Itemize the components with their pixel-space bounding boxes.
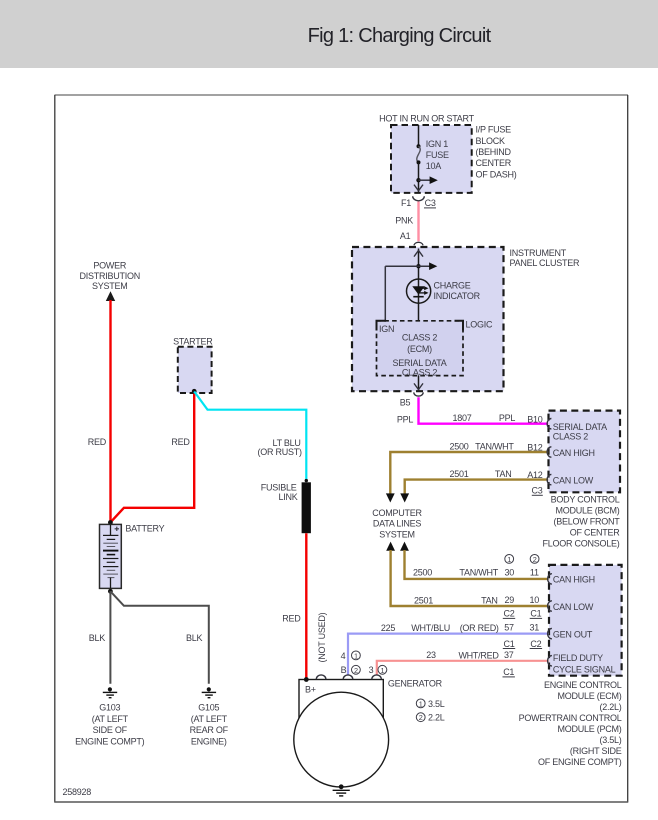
svg-text:CAN HIGH: CAN HIGH xyxy=(553,448,595,458)
wire WHT/RED 23 ECM FIELD to generator xyxy=(377,661,549,675)
svg-text:CLASS 2: CLASS 2 xyxy=(402,332,438,342)
svg-text:B5: B5 xyxy=(400,398,411,408)
svg-text:1807: 1807 xyxy=(452,413,471,423)
svg-text:(RIGHT SIDE: (RIGHT SIDE xyxy=(570,746,622,756)
logic box (inner dashed) xyxy=(377,321,464,376)
fusible link xyxy=(305,479,308,482)
connector at CAN HIGH xyxy=(548,574,552,584)
svg-text:G103: G103 xyxy=(99,703,120,713)
svg-text:BLK: BLK xyxy=(89,633,106,643)
svg-text:G105: G105 xyxy=(198,703,219,713)
svg-text:CHARGE: CHARGE xyxy=(434,281,471,291)
arrow down (2501 to data lines) xyxy=(400,493,409,502)
body control module box xyxy=(549,411,621,493)
wire TAN 2501 to BCM A12 xyxy=(405,480,549,494)
connector at B10 xyxy=(547,419,551,429)
svg-text:RED: RED xyxy=(282,614,301,624)
circled 1 column header xyxy=(505,555,514,564)
svg-text:TAN/WHT: TAN/WHT xyxy=(475,441,514,451)
svg-text:(NOT USED): (NOT USED) xyxy=(317,612,327,662)
svg-text:11: 11 xyxy=(530,568,539,578)
svg-text:RED: RED xyxy=(171,437,190,447)
connector at A12 xyxy=(547,474,551,484)
svg-text:30: 30 xyxy=(505,568,515,578)
ground G105 xyxy=(190,687,229,746)
svg-text:MODULE (BCM): MODULE (BCM) xyxy=(556,506,620,516)
svg-text:TAN/WHT: TAN/WHT xyxy=(459,567,498,577)
logic box corner brackets xyxy=(377,321,387,331)
svg-text:BLK: BLK xyxy=(186,633,203,643)
DATALINES xyxy=(372,508,422,551)
svg-text:HOT IN RUN OR START: HOT IN RUN OR START xyxy=(379,114,475,124)
generator body rectangle xyxy=(299,680,383,746)
generator circle xyxy=(294,692,389,787)
wire RED starter to battery xyxy=(111,392,195,523)
svg-text:225: 225 xyxy=(381,623,396,633)
ECM xyxy=(348,550,622,767)
instrument panel cluster box xyxy=(352,247,504,391)
svg-text:SERIAL DATA: SERIAL DATA xyxy=(392,358,446,368)
svg-text:3: 3 xyxy=(369,665,374,675)
svg-text:ENGINE CONTROL: ENGINE CONTROL xyxy=(544,680,622,690)
svg-text:PNK: PNK xyxy=(395,216,413,226)
svg-text:WHT/RED: WHT/RED xyxy=(458,651,499,661)
arrow up (CAN HIGH from ECM) xyxy=(400,542,409,551)
svg-text:BLOCK: BLOCK xyxy=(476,136,506,146)
svg-text:INDICATOR: INDICATOR xyxy=(434,291,481,301)
svg-text:F1: F1 xyxy=(401,198,411,208)
svg-text:CAN LOW: CAN LOW xyxy=(553,602,594,612)
svg-text:B10: B10 xyxy=(527,414,543,424)
connector at FIELD xyxy=(548,656,552,666)
connector at B5 xyxy=(414,392,423,396)
svg-text:RED: RED xyxy=(88,437,107,447)
svg-text:ENGINE COMPT): ENGINE COMPT) xyxy=(75,736,145,746)
svg-text:CENTER: CENTER xyxy=(476,158,512,168)
svg-text:IGN 1: IGN 1 xyxy=(426,139,449,149)
svg-text:COMPUTER: COMPUTER xyxy=(372,508,422,518)
svg-text:MODULE (ECM): MODULE (ECM) xyxy=(558,691,622,701)
svg-text:TAN: TAN xyxy=(481,595,498,605)
connector A1 at cluster xyxy=(414,242,423,245)
svg-text:C1: C1 xyxy=(503,639,514,649)
wire RED fusible link to generator B+ xyxy=(305,533,307,679)
svg-text:GEN OUT: GEN OUT xyxy=(553,630,593,640)
diagram frame xyxy=(55,95,629,803)
svg-text:B+: B+ xyxy=(305,684,316,694)
svg-text:PPL: PPL xyxy=(499,413,516,423)
svg-text:B12: B12 xyxy=(527,443,543,453)
svg-text:BATTERY: BATTERY xyxy=(125,524,164,534)
junction in cluster xyxy=(416,264,420,268)
battery B1 xyxy=(108,520,113,525)
svg-text:1: 1 xyxy=(380,666,384,675)
svg-text:C3: C3 xyxy=(425,198,436,208)
svg-text:STARTER: STARTER xyxy=(173,337,213,347)
svg-text:1: 1 xyxy=(354,651,358,660)
svg-text:REAR OF: REAR OF xyxy=(190,725,229,735)
svg-text:SIDE OF: SIDE OF xyxy=(93,725,128,735)
wire branch arrow right in fuse box xyxy=(419,179,431,181)
svg-text:LINK: LINK xyxy=(278,492,297,502)
svg-text:SYSTEM: SYSTEM xyxy=(92,281,128,291)
CLUSTER xyxy=(352,247,580,408)
svg-text:ENGINE): ENGINE) xyxy=(191,736,227,746)
svg-text:OF DASH): OF DASH) xyxy=(476,169,517,179)
connector at B12 xyxy=(547,447,551,457)
wire PPL 1807 cluster to BCM xyxy=(419,397,549,423)
svg-text:3.5L: 3.5L xyxy=(428,699,445,709)
svg-text:(OR RED): (OR RED) xyxy=(460,623,499,633)
svg-text:2.2L: 2.2L xyxy=(428,713,445,723)
wire into cluster with up arrow xyxy=(418,249,420,280)
svg-text:2500: 2500 xyxy=(449,441,468,451)
wire TAN 2501 data lines to ECM CAN LOW xyxy=(391,550,549,606)
junction at B+ xyxy=(304,677,309,682)
wire TAN/WHT 2500 to BCM B12 xyxy=(390,452,548,494)
svg-text:FIELD DUTY: FIELD DUTY xyxy=(553,653,603,663)
GENERATOR xyxy=(294,651,445,796)
svg-text:POWER: POWER xyxy=(93,261,127,271)
charge indicator lamp xyxy=(407,279,431,321)
connector pin 3 xyxy=(372,675,382,679)
svg-text:2: 2 xyxy=(533,555,537,564)
svg-text:57: 57 xyxy=(504,623,514,633)
svg-text:2501: 2501 xyxy=(449,469,468,479)
svg-text:4: 4 xyxy=(341,651,346,661)
svg-text:CAN LOW: CAN LOW xyxy=(553,476,594,486)
svg-text:A12: A12 xyxy=(527,470,543,480)
svg-text:37: 37 xyxy=(504,650,514,660)
svg-text:2500: 2500 xyxy=(413,567,432,577)
svg-text:CYCLE SIGNAL: CYCLE SIGNAL xyxy=(553,664,616,674)
svg-text:CAN HIGH: CAN HIGH xyxy=(553,574,595,584)
wire PNK fuse to cluster xyxy=(417,202,419,242)
connector pin 4/B xyxy=(343,675,353,679)
svg-text:DATA LINES: DATA LINES xyxy=(373,519,421,529)
svg-text:TAN: TAN xyxy=(495,469,512,479)
svg-text:OF ENGINE COMPT): OF ENGINE COMPT) xyxy=(538,757,622,767)
svg-text:(AT LEFT: (AT LEFT xyxy=(92,714,129,724)
svg-text:(2.2L): (2.2L) xyxy=(599,702,621,712)
svg-text:CLASS 2: CLASS 2 xyxy=(402,367,438,377)
svg-text:SERIAL DATA: SERIAL DATA xyxy=(553,422,607,432)
wire branch arrow right in cluster xyxy=(385,265,429,267)
junction in fuse box xyxy=(416,178,420,182)
svg-text:2: 2 xyxy=(354,666,358,675)
arrow down at fuse box exit xyxy=(414,185,423,191)
wire RED battery to power distribution xyxy=(109,300,111,523)
svg-text:Fig 1: Charging Circuit: Fig 1: Charging Circuit xyxy=(308,25,492,47)
svg-text:2: 2 xyxy=(419,713,423,722)
svg-text:IGN: IGN xyxy=(379,324,394,334)
svg-text:FUSIBLE: FUSIBLE xyxy=(261,483,297,493)
connector C3 at fuse block xyxy=(413,196,425,201)
wire LT BLU starter to fusible link xyxy=(194,392,306,481)
wire WHT/BLU 225 ECM GEN OUT to generator xyxy=(348,634,549,675)
svg-text:(ECM): (ECM) xyxy=(407,344,432,354)
FUSEBLOCK xyxy=(379,114,517,246)
svg-text:CLASS 2: CLASS 2 xyxy=(553,432,589,442)
svg-text:(BELOW FRONT: (BELOW FRONT xyxy=(554,517,621,527)
svg-text:OF CENTER: OF CENTER xyxy=(570,528,621,538)
svg-text:DISTRIBUTION: DISTRIBUTION xyxy=(80,271,141,281)
arrow up (CAN LOW from ECM) xyxy=(386,542,395,551)
svg-text:BODY CONTROL: BODY CONTROL xyxy=(551,495,620,505)
svg-text:29: 29 xyxy=(505,595,515,605)
fuse IGN 1 FUSE 10A xyxy=(417,125,450,193)
svg-text:(OR RUST): (OR RUST) xyxy=(258,447,302,457)
svg-text:I/P FUSE: I/P FUSE xyxy=(476,125,512,135)
BCM xyxy=(386,397,620,548)
svg-text:C3: C3 xyxy=(531,486,542,496)
svg-text:FUSE: FUSE xyxy=(426,150,449,160)
svg-text:C1: C1 xyxy=(503,667,514,677)
wire BLK battery to G105 xyxy=(110,591,208,683)
wire exit cluster with down arrow xyxy=(418,376,420,392)
svg-text:1: 1 xyxy=(507,555,511,564)
ground at generator bottom xyxy=(333,784,350,796)
svg-text:PANEL CLUSTER: PANEL CLUSTER xyxy=(510,258,581,268)
svg-text:C1: C1 xyxy=(530,609,541,619)
circled 2 column header xyxy=(530,555,539,564)
wire branch down to logic box IGN xyxy=(384,266,386,321)
svg-text:B: B xyxy=(341,665,347,675)
svg-text:23: 23 xyxy=(426,650,436,660)
engine control module box xyxy=(549,565,622,676)
legend circled 2 = 2.2L xyxy=(416,713,425,722)
connector at GEN OUT xyxy=(548,628,552,638)
svg-text:INSTRUMENT: INSTRUMENT xyxy=(510,248,567,258)
svg-text:SYSTEM: SYSTEM xyxy=(379,529,415,539)
battery plus sign xyxy=(115,527,119,531)
title banner xyxy=(0,0,658,68)
svg-text:C2: C2 xyxy=(503,609,514,619)
svg-text:10A: 10A xyxy=(426,161,442,171)
svg-text:258928: 258928 xyxy=(63,787,92,797)
svg-text:WHT/BLU: WHT/BLU xyxy=(411,623,450,633)
connector at CAN LOW xyxy=(548,601,552,611)
svg-text:31: 31 xyxy=(530,623,540,633)
wire BLK battery to G103 xyxy=(109,591,111,683)
svg-text:1: 1 xyxy=(419,699,423,708)
svg-text:PPL: PPL xyxy=(397,414,414,424)
LEFT-SIDE xyxy=(75,261,327,747)
svg-text:(3.5L): (3.5L) xyxy=(599,735,621,745)
svg-text:10: 10 xyxy=(530,595,540,605)
junction at starter bottom xyxy=(192,389,197,394)
wire TAN/WHT 2500 data lines to ECM CAN HIGH xyxy=(405,550,549,579)
junction at battery bottom xyxy=(108,589,113,594)
legend circled 1 = 3.5L xyxy=(416,699,425,708)
svg-text:FLOOR CONSOLE): FLOOR CONSOLE) xyxy=(542,539,619,549)
ground G103 xyxy=(75,687,145,746)
svg-text:POWERTRAIN CONTROL: POWERTRAIN CONTROL xyxy=(519,713,622,723)
svg-text:LOGIC: LOGIC xyxy=(466,319,494,329)
svg-text:MODULE (PCM): MODULE (PCM) xyxy=(558,724,622,734)
svg-text:GENERATOR: GENERATOR xyxy=(388,678,443,688)
svg-text:(BEHIND: (BEHIND xyxy=(476,147,512,157)
arrow to power distribution system xyxy=(106,291,115,301)
svg-text:(AT LEFT: (AT LEFT xyxy=(191,714,228,724)
svg-text:2501: 2501 xyxy=(414,595,433,605)
I/P fuse block box xyxy=(391,125,472,193)
arrow down (2500 to data lines) xyxy=(386,493,395,502)
svg-text:A1: A1 xyxy=(400,231,411,241)
connector pin (not used) xyxy=(316,675,326,679)
svg-text:C2: C2 xyxy=(530,639,541,649)
